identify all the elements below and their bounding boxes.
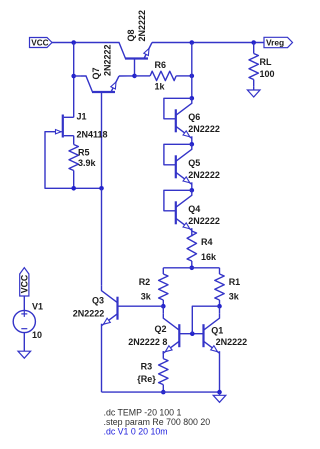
svg-text:Q4: Q4: [188, 204, 200, 214]
label R4 value 16k: [201, 252, 217, 262]
label Q7 2N2222: [103, 44, 113, 76]
wire VCC rail to Q8 collector: [52, 42, 114, 44]
wire Q7 collector: [74, 75, 81, 77]
label RL value 100: [260, 69, 275, 79]
label R6: [155, 60, 167, 70]
wire Q6 base-collector loop: [164, 98, 192, 119]
svg-text:.dc V1 0 20 10m: .dc V1 0 20 10m: [104, 427, 168, 437]
svg-text:Q2: Q2: [155, 324, 167, 334]
svg-text:Q8: Q8: [126, 29, 136, 41]
svg-text:R2: R2: [139, 277, 151, 287]
label R5 value 3.9k: [78, 158, 97, 168]
label R1 value 3k: [229, 291, 240, 301]
transistor Q1: [204, 313, 220, 353]
wire Q7 base down: [101, 92, 103, 188]
label J1: [77, 112, 87, 122]
svg-text:2N2222: 2N2222: [188, 216, 220, 226]
wire bottom rail: [102, 391, 220, 393]
svg-text:VCC: VCC: [31, 38, 48, 47]
node Q4 collector junction: [190, 188, 195, 193]
label R6 value 1k: [155, 82, 166, 92]
svg-text:2N2222: 2N2222: [73, 309, 105, 319]
label R3: [141, 362, 153, 372]
label Q6: [188, 112, 200, 122]
resistor R4: [187, 228, 196, 267]
wire VCC down to Q7 collector and J1 drain: [64, 43, 74, 118]
net flag Vreg: [264, 37, 293, 47]
label J1 2N4118: [77, 130, 108, 140]
label Q2: [155, 324, 167, 334]
node Q8 base junction: [132, 74, 137, 79]
wire Q8 base down: [134, 59, 136, 76]
svg-text:100: 100: [260, 69, 275, 79]
label R4: [201, 237, 213, 247]
svg-text:1k: 1k: [155, 82, 166, 92]
node R4 bottom junction: [190, 266, 195, 271]
ground main: [213, 392, 226, 402]
svg-text:3k: 3k: [141, 291, 152, 301]
node Q6 collector junction: [190, 96, 195, 101]
node Vreg-R6 spine junction: [190, 40, 195, 45]
wire Q3 collector from bias node: [101, 188, 103, 285]
svg-text:R4: R4: [201, 237, 213, 247]
wire Q3 base to R2 node: [118, 305, 164, 307]
svg-text:16k: 16k: [201, 252, 217, 262]
svg-text:Q5: Q5: [188, 158, 200, 168]
resistor R1: [215, 268, 224, 306]
svg-text:2N2222: 2N2222: [103, 44, 113, 76]
wire R1 node to Q1 collector: [219, 306, 221, 313]
svg-text:Vreg: Vreg: [266, 38, 284, 48]
node R2 bottom junction: [161, 304, 166, 309]
resistor R6: [135, 71, 192, 80]
directive .dc TEMP: [104, 407, 182, 417]
label R5: [78, 148, 90, 158]
svg-text:V1: V1: [32, 302, 43, 312]
node RL junction: [251, 40, 256, 45]
label R3 value {Re}: [137, 374, 156, 384]
node VCC rail junction: [71, 40, 76, 45]
resistor RL: [249, 43, 258, 87]
wire V1 to ground: [23, 333, 25, 348]
svg-text:3k: 3k: [229, 291, 240, 301]
svg-text:2N2222: 2N2222: [188, 170, 220, 180]
label RL: [260, 57, 272, 67]
wire Q8 emitter rail to Vreg: [152, 42, 264, 44]
label Q8: [126, 29, 136, 41]
node R5 bottom junction: [71, 186, 76, 191]
wire Q5 emitter down: [191, 182, 193, 190]
svg-text:Q3: Q3: [92, 295, 104, 305]
wire R2 node to Q2 collector: [162, 306, 164, 313]
svg-text:3.9k: 3.9k: [78, 158, 97, 168]
resistor R5: [69, 136, 78, 189]
node Q1-Q2 base junction: [190, 331, 195, 336]
directive .step param: [104, 417, 211, 427]
transistor Q4: [176, 190, 192, 230]
resistor R2: [159, 268, 168, 306]
node Q5 collector junction: [190, 142, 195, 147]
svg-text:R5: R5: [78, 148, 90, 158]
transistor Q2: [163, 313, 179, 353]
label Q1 2N2222: [216, 337, 248, 347]
label Q6 2N2222: [188, 124, 220, 134]
label R2 value 3k: [141, 291, 152, 301]
wire Q3 emitter down: [101, 324, 103, 392]
wire Q4 emitter down: [191, 228, 193, 236]
net flag VCC (top left): [30, 38, 53, 48]
net flag VCC (vertical at V1): [19, 268, 29, 296]
label Q2 2N2222 8: [128, 337, 167, 347]
label Q3: [92, 295, 104, 305]
label R1: [229, 277, 241, 287]
transistor Q3: [102, 286, 118, 326]
label Q8 2N2222: [137, 10, 147, 42]
svg-text:{Re}: {Re}: [137, 374, 156, 384]
transistor Q7: [81, 76, 119, 92]
svg-text:2N4118: 2N4118: [77, 130, 108, 140]
svg-text:VCC: VCC: [19, 274, 29, 293]
wire spine Vreg to Q6: [191, 43, 193, 99]
label Q3 2N2222: [73, 309, 105, 319]
label Q7: [91, 67, 101, 79]
svg-text:R6: R6: [155, 60, 167, 70]
node R3 bottom junction: [161, 390, 166, 395]
node Q7 collector tap: [71, 74, 76, 79]
wire VCC flag to V1: [23, 296, 25, 310]
label Q4: [188, 204, 200, 214]
wire Q5 base-collector loop: [164, 144, 192, 165]
label Q5 2N2222: [188, 170, 220, 180]
node ground junction: [217, 390, 222, 395]
directive .dc V1 (blue): [104, 427, 168, 437]
label V1 value 10: [32, 330, 42, 340]
svg-text:2N2222: 2N2222: [216, 337, 248, 347]
svg-text:RL: RL: [260, 57, 272, 67]
wire Q4 base-collector loop: [164, 190, 192, 211]
node R1 bottom junction: [217, 304, 222, 309]
wire Q1 base: [192, 333, 203, 335]
jfet J1: [48, 115, 74, 138]
svg-text:Q1: Q1: [211, 325, 223, 335]
svg-text:2N2222: 2N2222: [137, 10, 147, 42]
ground below RL: [247, 87, 260, 97]
wire Q7 emitter to Q8 base node: [119, 75, 135, 77]
wire Q6 emitter down: [191, 136, 193, 144]
svg-text:R3: R3: [141, 362, 153, 372]
transistor Q8: [114, 43, 152, 59]
transistor Q6: [176, 98, 192, 138]
voltage source V1: [13, 310, 35, 332]
svg-text:10: 10: [32, 330, 42, 340]
wire Q2 base: [179, 333, 192, 335]
label R2: [139, 277, 151, 287]
wire J1 gate loop: [45, 132, 102, 189]
svg-text:2N2222 8: 2N2222 8: [128, 337, 167, 347]
svg-text:2N2222: 2N2222: [188, 124, 220, 134]
wire Q1 emitter down: [219, 351, 221, 392]
label Q4 2N2222: [188, 216, 220, 226]
svg-text:Q7: Q7: [91, 67, 101, 79]
svg-text:J1: J1: [77, 112, 87, 122]
svg-text:R1: R1: [229, 277, 241, 287]
wire Q2 emitter to R3: [162, 351, 164, 354]
wire base riser to R1 node: [192, 306, 219, 334]
label V1: [32, 302, 43, 312]
resistor R3: [159, 351, 168, 392]
svg-text:.step param Re 700 800 20: .step param Re 700 800 20: [104, 417, 211, 427]
ground below V1: [18, 348, 31, 358]
label Q5: [188, 158, 200, 168]
label Q1: [211, 325, 223, 335]
svg-text:Q6: Q6: [188, 112, 200, 122]
wire R2-R1 top rail: [163, 267, 219, 269]
node R6 right junction: [190, 74, 195, 79]
node Q7 base / Q3 collector junction: [99, 186, 104, 191]
svg-text:.dc TEMP -20 100 1: .dc TEMP -20 100 1: [104, 407, 182, 417]
transistor Q5: [176, 144, 192, 184]
